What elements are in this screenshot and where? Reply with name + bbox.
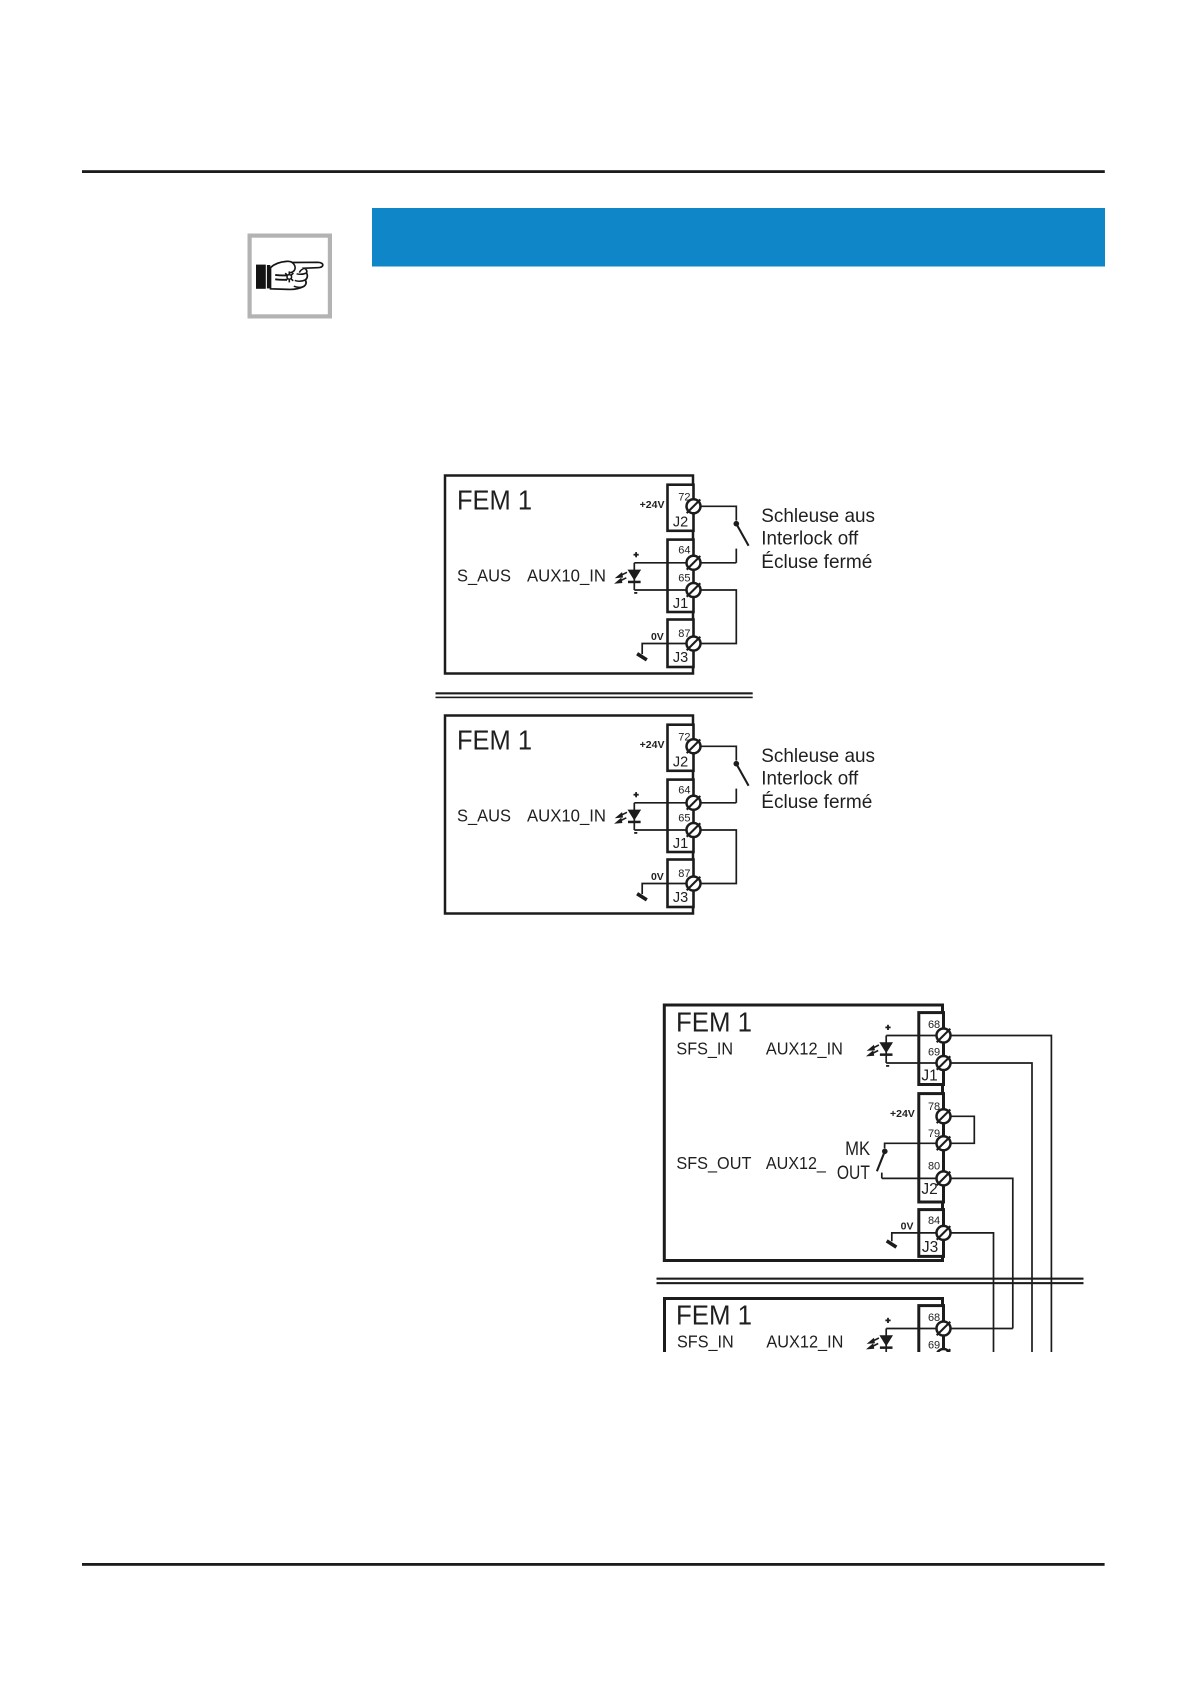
LED AUX12_IN (diagram 3) plus polarity label [885,1025,890,1030]
svg-text:Interlock off: Interlock off [761,528,859,550]
wire pin 84 to 0V ground (diagram 3) [892,1233,937,1241]
LED AUX10_IN (diagram 2) cathode bar [628,821,641,824]
wire pin 87 to 0V ground (diagram 2) [642,884,687,895]
wire from pin 72 to interlock switch (diagram 1) [701,506,737,520]
connector block J2 (diagram 2) [668,725,694,771]
pin 72 screw terminal (diagram 2) [687,739,701,753]
svg-text:Schleuse aus: Schleuse aus [761,745,875,767]
svg-text:SFS_OUT: SFS_OUT [676,1153,751,1174]
svg-text:AUX12_IN: AUX12_IN [766,1332,843,1353]
wire pin 80 to diagram 4 pin 68 [951,1178,1013,1328]
note icon: curled finger lines [294,273,307,287]
interlock switch lower contact stub (diagram 2) [735,789,737,803]
svg-text:64: 64 [678,785,690,797]
svg-text:+24V: +24V [640,499,665,511]
note icon: thumb fold line [289,263,295,273]
wire pin 69 to remote bus (diagram 3) [951,1063,1033,1352]
pin 84 screw terminal (diagram 3) [937,1226,951,1240]
interlock switch blade (diagram 2) [736,764,748,786]
note icon: pointing hand outline [271,261,323,289]
connector block J3 (diagram 3) [919,1210,944,1257]
pin 69 screw terminal (diagram 3) [937,1056,951,1070]
svg-text:SFS_IN: SFS_IN [676,1039,733,1060]
page footer rule [82,1563,1105,1566]
LED AUX10_IN (diagram 1) minus polarity label [634,592,637,594]
svg-text:J2: J2 [921,1181,937,1198]
0V (diagram 1) ground symbol [637,654,647,660]
pin 68 screw terminal (diagram 4) [937,1322,951,1336]
svg-text:J1: J1 [673,596,688,612]
wire loop joining pin 65 and pin 87 (diagram 2) [701,830,737,884]
pin 72 screw terminal (diagram 1) [687,499,701,513]
svg-text:AUX10_IN: AUX10_IN [527,566,606,587]
svg-text:65: 65 [678,573,690,585]
connector block J1 (diagram 3) [919,1013,944,1085]
connector block J2 (diagram 3) [919,1094,944,1202]
svg-text:Interlock off: Interlock off [761,768,859,790]
svg-text:MK: MK [845,1139,870,1160]
svg-text:FEM 1: FEM 1 [457,485,532,516]
svg-text:Écluse fermé: Écluse fermé [761,550,872,573]
wire from pin 72 to interlock switch (diagram 2) [701,746,737,760]
LED AUX10_IN (diagram 1) plus polarity label [634,552,639,557]
FEM 1 module box (diagram 4) [665,1299,943,1555]
interlock switch lower contact stub (diagram 1) [735,549,737,563]
pin 78 screw terminal (diagram 3) [937,1109,951,1123]
+24V strap wire joining pin 78 and pin 79 (diagram 3) [951,1116,975,1143]
LED AUX12_IN (diagram 3) light emission arrows [868,1045,879,1055]
LED AUX12_IN (diagram 4) diode triangle [879,1335,893,1346]
note icon: knuckle strokes [285,271,293,282]
MK OUT switch blade (diagram 3) [877,1151,885,1171]
svg-text:+24V: +24V [640,739,665,751]
pin 79 screw terminal (diagram 3) [937,1136,951,1150]
page header rule [82,170,1105,173]
connector block J3 (diagram 1) [668,620,694,668]
pin 65 screw terminal (diagram 1) [687,583,701,597]
note icon: palm crease lines [275,275,287,280]
svg-text:J1: J1 [673,836,688,852]
note icon: index finger base line [299,268,304,272]
pin 68 screw terminal (diagram 3) [937,1029,951,1043]
wire from switch contact to pin 64 (diagram 1) [701,562,737,564]
svg-text:80: 80 [928,1161,940,1173]
wire LED anode to pin 64 (diagram 1) [634,562,687,564]
pin 87 screw terminal (diagram 1) [687,637,701,651]
wire LED cathode to pin 65 (diagram 1) [634,589,687,591]
LED AUX10_IN (diagram 2) plus polarity label [634,792,639,797]
note icon: pointing hand cuff [256,265,266,289]
svg-text:FEM 1: FEM 1 [676,1300,752,1331]
MK OUT switch lower contact stub (diagram 3) [881,1173,883,1179]
LED AUX12_IN (diagram 3) diode triangle [879,1042,893,1053]
note icon: knuckle circle [287,275,292,280]
svg-text:AUX12_IN: AUX12_IN [766,1039,843,1060]
svg-text:AUX12_: AUX12_ [766,1153,826,1174]
0V (diagram 3) ground symbol [887,1241,897,1247]
svg-text:0V: 0V [651,631,664,643]
wire pin 87 to 0V ground (diagram 1) [642,644,687,655]
0V (diagram 2) ground symbol [637,894,647,900]
svg-text:J3: J3 [673,890,688,906]
connector block J1 (diagram 2) [668,780,694,852]
FEM 1 module box (diagram 2) [445,716,693,914]
svg-text:0V: 0V [901,1221,914,1233]
LED AUX10_IN (diagram 2) diode triangle [628,810,642,821]
svg-text:OUT: OUT [837,1163,870,1184]
svg-text:Écluse fermé: Écluse fermé [761,790,872,813]
LED AUX12_IN (diagram 4) minus polarity label [886,1358,889,1360]
MK OUT switch pivot junction (diagram 3) [882,1149,888,1155]
LED AUX10_IN (diagram 2) anode lead [633,803,635,830]
LED AUX12_IN (diagram 4) light emission arrows [868,1338,879,1348]
svg-text:SFS_IN: SFS_IN [677,1332,734,1353]
wire LED cathode to pin 65 (diagram 2) [634,829,687,831]
svg-text:+24V: +24V [890,1108,915,1120]
svg-text:J3: J3 [922,1239,938,1256]
svg-text:64: 64 [678,545,690,557]
svg-text:Schleuse aus: Schleuse aus [761,505,875,527]
svg-text:FEM 1: FEM 1 [457,725,532,756]
pin 64 screw terminal (diagram 1) [687,556,701,570]
wire LED cathode to pin 69 (diagram 3) [886,1062,937,1064]
LED AUX10_IN (diagram 1) diode triangle [628,570,642,581]
separator double line between diagram 3 and diagram 4 [657,1278,1084,1285]
svg-text:J1: J1 [921,1068,937,1085]
wire pin 84 to remote bus (diagram 3) [951,1233,994,1352]
LED AUX10_IN (diagram 1) anode lead [633,563,635,590]
svg-text:65: 65 [678,813,690,825]
LED AUX12_IN (diagram 3) minus polarity label [886,1065,889,1067]
LED AUX10_IN (diagram 2) minus polarity label [634,832,637,834]
FEM 1 module box (diagram 1) [445,476,693,674]
LED AUX10_IN (diagram 2) light emission arrows [617,812,628,822]
pin 80 screw terminal (diagram 3) [937,1171,951,1185]
pin 69 screw terminal (diagram 4) [937,1349,951,1363]
wire LED anode to pin 64 (diagram 2) [634,802,687,804]
pin 65 screw terminal (diagram 2) [687,823,701,837]
wire loop joining pin 65 and pin 87 (diagram 1) [701,590,737,644]
svg-text:S_AUS: S_AUS [457,566,511,587]
wire switch contact to pin 80 (diagram 3) [882,1177,937,1179]
svg-text:AUX10_IN: AUX10_IN [527,806,606,827]
interlock switch pivot junction (diagram 1) [734,521,740,527]
svg-text:J3: J3 [673,650,688,666]
svg-text:84: 84 [928,1215,940,1227]
connector block J3 (diagram 2) [668,860,694,908]
svg-text:FEM 1: FEM 1 [676,1007,752,1038]
separator double line between diagram 1 and diagram 2 [436,692,753,698]
LED AUX10_IN (diagram 1) cathode bar [628,581,641,584]
LED AUX12_IN (diagram 4) cathode bar [880,1346,893,1349]
connector block J1 (diagram 1) [668,540,694,612]
FEM 1 module box (diagram 3) [664,1005,942,1261]
LED AUX10_IN (diagram 1) light emission arrows [617,572,628,582]
connector block J1 (diagram 4) [919,1306,944,1378]
pin 87 screw terminal (diagram 2) [687,877,701,891]
note icon frame [250,236,330,317]
note icon: pointing hand cuff edge [267,265,270,288]
LED AUX12_IN (diagram 3) anode lead [885,1036,887,1064]
wire from switch contact to pin 64 (diagram 2) [701,802,737,804]
wire LED anode to pin 68 (diagram 3) [886,1035,937,1037]
wire pin 79 to MK OUT switch (diagram 3) [885,1143,937,1148]
LED AUX12_IN (diagram 4) plus polarity label [885,1318,890,1323]
svg-text:J2: J2 [673,755,688,771]
connector block J2 (diagram 1) [668,485,694,531]
interlock switch blade (diagram 1) [736,524,748,546]
svg-text:0V: 0V [651,871,664,883]
pin 64 screw terminal (diagram 2) [687,796,701,810]
LED AUX12_IN (diagram 4) anode lead [885,1329,887,1357]
interlock switch pivot junction (diagram 2) [734,761,740,767]
wire pin 68 to remote bus (diagram 3) [951,1036,1052,1353]
section heading banner [372,208,1105,267]
wire LED anode through pin 68 to diagram 3 pin 80 (diagram 4) [886,1328,1013,1330]
svg-text:J2: J2 [673,515,688,531]
LED AUX12_IN (diagram 3) cathode bar [880,1053,893,1056]
svg-text:S_AUS: S_AUS [457,806,511,827]
